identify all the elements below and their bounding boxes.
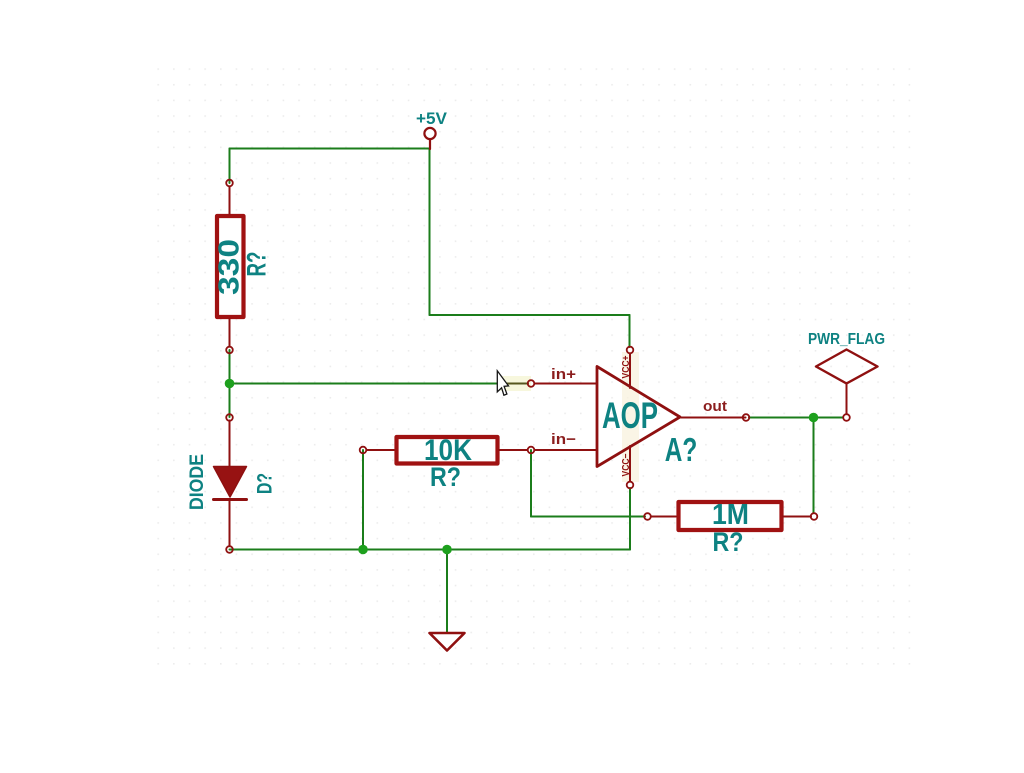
highlight tint along VCC pins column bbox=[622, 352, 639, 482]
wire +5V horizontal top bbox=[230, 148, 430, 150]
resistor R2 10K body bbox=[397, 437, 498, 464]
op-amp in- pin bbox=[535, 449, 597, 451]
mouse cursor bbox=[497, 371, 508, 395]
power symbol +5V bbox=[424, 128, 435, 149]
wire 10K left pin drop bbox=[362, 450, 364, 550]
diode triangle bbox=[214, 467, 247, 498]
wire in+ olive segment bbox=[504, 383, 528, 385]
wire horizontal mid to VCC+ column bbox=[430, 314, 630, 316]
diode D1 bbox=[229, 421, 231, 547]
op-amp VCC- pin bbox=[629, 446, 631, 482]
svg-text:+5V: +5V bbox=[416, 110, 447, 128]
svg-text:R?: R? bbox=[242, 252, 272, 277]
svg-text:R?: R? bbox=[713, 527, 744, 557]
diode pin circles bbox=[226, 414, 233, 421]
wire +5V vertical drop bbox=[429, 149, 431, 316]
svg-text:R?: R? bbox=[430, 462, 461, 492]
svg-text:in+: in+ bbox=[551, 366, 576, 383]
wire in+ horizontal bbox=[230, 383, 505, 385]
op-amp out pin bbox=[681, 417, 746, 419]
svg-text:A?: A? bbox=[665, 431, 698, 468]
svg-text:DIODE: DIODE bbox=[186, 454, 208, 510]
highlight halo near cursor bbox=[497, 376, 531, 391]
svg-text:in−: in− bbox=[551, 431, 576, 448]
wire in- feedback vertical bbox=[530, 450, 532, 517]
resistor R3 1M body bbox=[679, 502, 782, 530]
wire R330 bottom to diode top bbox=[229, 350, 231, 417]
wire rail up to VCC- pin bbox=[629, 488, 631, 550]
resistor R1 pin leads bbox=[229, 187, 231, 347]
wire bottom rail bbox=[230, 549, 631, 551]
junction node rail-gnd bbox=[442, 545, 452, 555]
resistor R3 pin leads bbox=[651, 516, 811, 518]
wire feedback horizontal to 1M left bbox=[531, 516, 645, 518]
PWR_FLAG symbol bbox=[816, 350, 878, 384]
wire left drop to R330 top pin bbox=[229, 149, 231, 184]
junction node out bbox=[809, 413, 819, 423]
op-amp VCC+ pin bbox=[629, 354, 631, 389]
svg-text:PWR_FLAG: PWR_FLAG bbox=[808, 331, 885, 348]
svg-text:out: out bbox=[703, 399, 727, 415]
wire ground drop bbox=[446, 550, 448, 634]
resistor R1 pin circles bbox=[226, 180, 233, 187]
resistor R2 pin circles bbox=[360, 447, 367, 454]
svg-text:VCC+: VCC+ bbox=[621, 355, 632, 378]
ground symbol bbox=[430, 633, 465, 651]
resistor R1 330 body bbox=[217, 216, 244, 317]
diode cathode bar bbox=[214, 498, 247, 501]
wire down to VCC+ pin bbox=[629, 315, 631, 347]
svg-text:AOP: AOP bbox=[602, 395, 658, 436]
wire out to PWR_FLAG bbox=[749, 417, 843, 419]
junction node rail-10K bbox=[358, 545, 368, 555]
resistor R2 pin leads bbox=[367, 449, 528, 451]
op-amp in+ pin bbox=[535, 383, 597, 385]
svg-text:VCC−: VCC− bbox=[621, 453, 632, 476]
junction node in+ bbox=[225, 379, 235, 389]
resistor R3 pin circles bbox=[644, 513, 651, 520]
wire out junction drop to 1M right bbox=[813, 418, 815, 514]
svg-text:D?: D? bbox=[254, 473, 277, 494]
op-amp U1 triangle bbox=[597, 367, 680, 467]
